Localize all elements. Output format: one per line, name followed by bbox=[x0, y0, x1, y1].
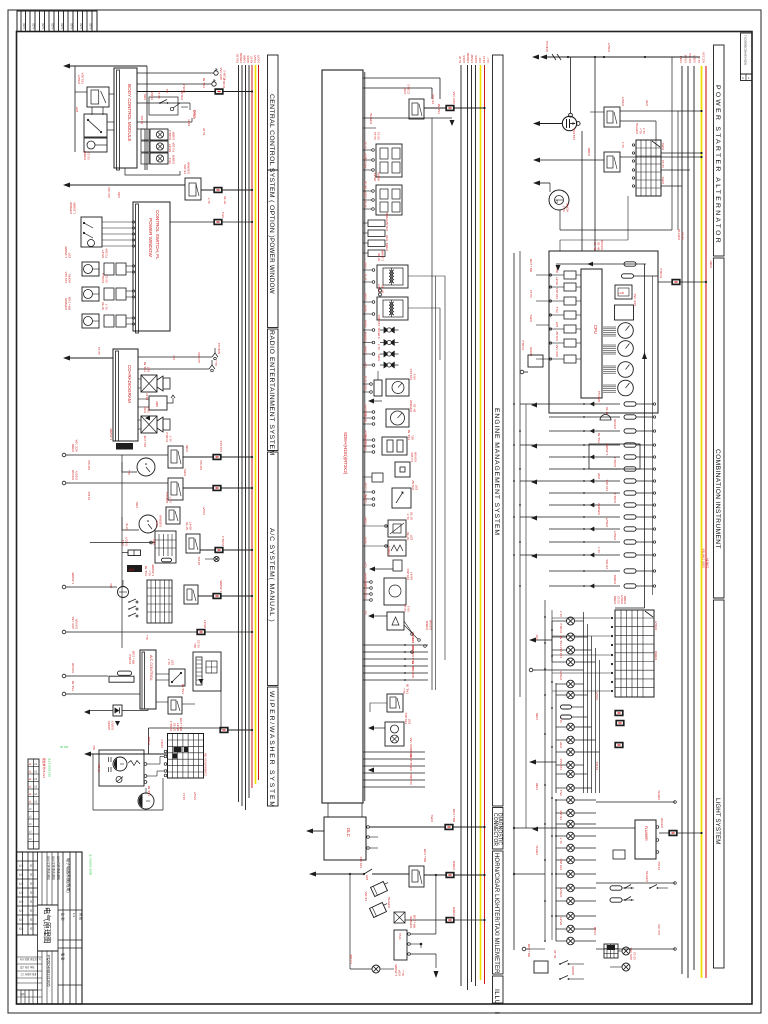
svg-text:0.85L: 0.85L bbox=[135, 501, 139, 508]
svg-text:HORN: HORN bbox=[365, 573, 368, 581]
turn signal resistors bbox=[610, 886, 622, 890]
svg-text:F23 10A: F23 10A bbox=[559, 647, 563, 658]
svg-text:X1-7: X1-7 bbox=[104, 303, 108, 310]
radio head unit U3 bbox=[116, 351, 119, 441]
bcm bottom frame wire bbox=[125, 168, 180, 175]
ems right trunk wire bbox=[431, 118, 433, 690]
svg-text:0.5G/Y: 0.5G/Y bbox=[110, 721, 114, 730]
engine control module U5 bbox=[322, 70, 363, 803]
wiper feed arrow bbox=[84, 752, 91, 757]
ac feed 1 to bus bbox=[183, 456, 252, 458]
blower relay K5 bbox=[166, 507, 180, 524]
section bar segment bbox=[493, 851, 504, 974]
condenser fan motor M8 bbox=[137, 458, 155, 476]
svg-text:1.25W/B: 1.25W/B bbox=[71, 572, 75, 584]
svg-text:JL7160A1-2005: JL7160A1-2005 bbox=[89, 854, 93, 876]
svg-text:0.5B/Y: 0.5B/Y bbox=[709, 260, 713, 268]
svg-text:共 张: 共 张 bbox=[79, 913, 84, 920]
svg-text:GND E2: GND E2 bbox=[217, 342, 221, 354]
ac controller U4 bbox=[142, 652, 145, 709]
svg-text:X1-7: X1-7 bbox=[172, 354, 176, 360]
svg-text:0.5B/R: 0.5B/R bbox=[613, 574, 617, 584]
oxygen sensor B7 bbox=[388, 540, 406, 556]
cam sensor arrow bbox=[368, 399, 374, 404]
svg-text:F8 15A: F8 15A bbox=[559, 810, 563, 820]
ac feed 4 to bus bbox=[198, 595, 252, 597]
svg-text:B+ 30: B+ 30 bbox=[365, 200, 368, 207]
headlamp lamps bbox=[567, 617, 575, 625]
svg-text:F15 20A: F15 20A bbox=[80, 73, 84, 84]
wire with switch S2 bbox=[137, 102, 190, 104]
svg-text:X2-12: X2-12 bbox=[661, 160, 665, 168]
svg-text:TAXI: TAXI bbox=[398, 933, 402, 940]
svg-text:TAIL 58: TAIL 58 bbox=[202, 77, 206, 88]
section bar segment bbox=[493, 976, 504, 1003]
instrument cpu U7 bbox=[581, 269, 602, 398]
cigar lighter feed to bus bbox=[405, 919, 485, 921]
svg-text:RR+ 2.0B: RR+ 2.0B bbox=[365, 157, 368, 168]
diagnostic connector X1 bbox=[324, 817, 366, 860]
svg-text:ACC 15A: ACC 15A bbox=[409, 737, 413, 750]
window relay K2 bbox=[185, 178, 201, 200]
svg-text:0.5BR: 0.5BR bbox=[623, 595, 627, 604]
svg-text:ACC 15A: ACC 15A bbox=[555, 344, 559, 357]
antenna amplifier A1 bbox=[138, 398, 149, 400]
instrument input boxes bbox=[564, 271, 576, 279]
svg-text:C106-2: C106-2 bbox=[160, 739, 164, 748]
svg-text:TAIL 58: TAIL 58 bbox=[365, 413, 368, 422]
light switch feeds bbox=[552, 617, 611, 619]
svg-text:0.5BR: 0.5BR bbox=[185, 445, 189, 452]
svg-text:TAIL 58: TAIL 58 bbox=[181, 683, 185, 694]
svg-text:F15 20A: F15 20A bbox=[365, 583, 368, 593]
svg-text:RR+ 2.0B: RR+ 2.0B bbox=[131, 651, 135, 664]
svg-text:0.5G/Y: 0.5G/Y bbox=[559, 888, 563, 897]
svg-text:A1B2: A1B2 bbox=[51, 22, 54, 29]
lamp L18 bbox=[567, 856, 575, 864]
body control module U1 bbox=[117, 70, 120, 170]
window feed connector bbox=[201, 189, 252, 191]
svg-text:X1-7: X1-7 bbox=[559, 610, 563, 617]
section bar segment bbox=[268, 170, 279, 328]
svg-text:0.85L: 0.85L bbox=[117, 191, 121, 198]
temp gauge bbox=[618, 380, 634, 396]
svg-text:1:1: 1:1 bbox=[72, 913, 76, 918]
svg-text:F3 30A: F3 30A bbox=[595, 761, 599, 770]
svg-text:E07: E07 bbox=[75, 106, 79, 112]
svg-text:HORN: HORN bbox=[365, 320, 368, 328]
svg-text:G: G bbox=[556, 200, 559, 204]
junction cluster bbox=[411, 633, 414, 636]
svg-text:LIGHT SYSTEM: LIGHT SYSTEM bbox=[714, 798, 721, 844]
svg-text:0.5G/Y: 0.5G/Y bbox=[253, 55, 257, 63]
svg-text:PQ5D4N8321005: PQ5D4N8321005 bbox=[47, 955, 52, 987]
svg-text:X2-12: X2-12 bbox=[482, 56, 486, 63]
warning row bell bbox=[600, 415, 611, 420]
ac thermo switch dark box bbox=[127, 565, 142, 572]
maf sensor B5 bbox=[392, 488, 411, 508]
svg-text:0.5L/W: 0.5L/W bbox=[593, 926, 597, 935]
svg-text:0.5L/W: 0.5L/W bbox=[385, 221, 389, 231]
svg-text:电气原理图: 电气原理图 bbox=[43, 907, 52, 943]
svg-text:HORN: HORN bbox=[462, 55, 466, 63]
svg-text:C203-4: C203-4 bbox=[613, 493, 617, 503]
svg-text:COMBINATION SW: COMBINATION SW bbox=[204, 752, 208, 776]
svg-text:X1-7: X1-7 bbox=[207, 197, 211, 204]
svg-text:A: A bbox=[742, 76, 744, 80]
fuel gauge bbox=[618, 362, 634, 378]
wiper combination switch S8 bbox=[168, 734, 204, 779]
svg-text:0.85R/W: 0.85R/W bbox=[411, 645, 415, 657]
svg-text:F8 15A: F8 15A bbox=[140, 115, 144, 124]
svg-text:ENGINE MANAGEMENT SYSTEM: ENGINE MANAGEMENT SYSTEM bbox=[493, 408, 500, 536]
svg-text:比 例: 比 例 bbox=[61, 913, 66, 920]
svg-text:0.5L/W: 0.5L/W bbox=[193, 109, 197, 118]
svg-text:E07: E07 bbox=[170, 659, 174, 665]
lock actuator M1 bbox=[84, 138, 107, 152]
svg-text:RR+ 2.0B: RR+ 2.0B bbox=[67, 297, 71, 310]
svg-text:0.5V/W: 0.5V/W bbox=[71, 663, 75, 673]
svg-text:C106-2: C106-2 bbox=[559, 623, 563, 633]
svg-text:HORN/CIGAR LIGHTER/TAXI MILEME: HORN/CIGAR LIGHTER/TAXI MILEMETER bbox=[493, 853, 499, 974]
svg-text:0.85Y/G: 0.85Y/G bbox=[387, 896, 391, 908]
svg-text:第 张: 第 张 bbox=[61, 953, 66, 961]
svg-text:B+ 30: B+ 30 bbox=[412, 404, 416, 412]
relay row fuse 2 bbox=[616, 721, 624, 726]
horn feed wire bbox=[309, 872, 316, 877]
battery feed wire bbox=[532, 55, 539, 60]
svg-text:ACC 15A: ACC 15A bbox=[633, 293, 637, 306]
trunk junction dots bbox=[513, 403, 515, 405]
section bar segment bbox=[493, 55, 504, 806]
svg-text:CPU: CPU bbox=[593, 325, 598, 334]
fuel injector J4 bbox=[384, 362, 389, 369]
svg-text:RR+ 2.0B: RR+ 2.0B bbox=[179, 718, 183, 731]
wire BCM to bus with connector bbox=[137, 91, 252, 93]
svg-text:ACC 15A: ACC 15A bbox=[702, 52, 706, 63]
main relay K9 bbox=[409, 99, 424, 119]
svg-text:X1-7: X1-7 bbox=[597, 546, 601, 553]
svg-text:031: 031 bbox=[64, 745, 69, 749]
license lamp connector grid bbox=[604, 944, 618, 958]
svg-text:X5-3: X5-3 bbox=[559, 789, 563, 796]
svg-text:A1B2: A1B2 bbox=[61, 22, 64, 29]
svg-text:0.5V/W: 0.5V/W bbox=[413, 452, 417, 462]
svg-text:F15 20A: F15 20A bbox=[555, 288, 559, 299]
ac ground row 5 bbox=[62, 674, 66, 678]
lamp L17 bbox=[567, 844, 575, 852]
svg-text:SDM+(H191)(RT2K2): SDM+(H191)(RT2K2) bbox=[343, 432, 348, 475]
taxi feed vertical bbox=[435, 875, 437, 934]
frame patch below bar2 bbox=[487, 1005, 509, 1012]
switch group frame bbox=[149, 97, 178, 115]
light ground 1 bbox=[529, 668, 533, 672]
svg-text:0.85Y/G: 0.85Y/G bbox=[377, 327, 381, 339]
column1 power bus wires bbox=[238, 65, 240, 802]
svg-text:K5-87: K5-87 bbox=[203, 620, 207, 628]
left trunk verticals column3 bbox=[513, 253, 515, 950]
svg-text:ILL+: ILL+ bbox=[145, 634, 149, 640]
ignition switch feed wires bbox=[661, 152, 702, 154]
svg-text:E07: E07 bbox=[407, 718, 411, 724]
section bar segment bbox=[268, 452, 279, 686]
lamp L21 bbox=[567, 897, 575, 905]
svg-text:设计文件更改通知: 设计文件更改通知 bbox=[56, 856, 61, 880]
ems bottom pin rows bbox=[363, 751, 425, 753]
revision strip bbox=[28, 759, 39, 849]
svg-text:F15 20A: F15 20A bbox=[359, 857, 363, 868]
top-left header strip bbox=[17, 11, 97, 32]
radio antenna wire 1 bbox=[138, 356, 212, 358]
svg-text:F23 10A: F23 10A bbox=[219, 441, 223, 452]
section bar segment bbox=[714, 45, 725, 256]
keyhole switch S3 bbox=[170, 107, 173, 110]
svg-text:FLASHER: FLASHER bbox=[644, 826, 648, 841]
svg-text:0.85R STARTER: 0.85R STARTER bbox=[702, 548, 706, 568]
svg-text:0.5G/Y: 0.5G/Y bbox=[202, 507, 206, 515]
svg-text:CD+RADIOGRAM: CD+RADIOGRAM bbox=[127, 365, 132, 403]
svg-text:0.5L/W: 0.5L/W bbox=[684, 54, 688, 63]
svg-text:HORN: HORN bbox=[571, 966, 575, 975]
lamp L23 bbox=[567, 925, 575, 933]
svg-text:0.85Y/G: 0.85Y/G bbox=[369, 112, 373, 124]
tail lamp group bracket bbox=[555, 800, 557, 941]
svg-text:AMP: AMP bbox=[155, 401, 159, 407]
svg-text:0.85L: 0.85L bbox=[661, 142, 665, 150]
flasher feed box bbox=[613, 850, 625, 859]
ignition switch S10 bbox=[636, 140, 661, 196]
svg-text:F3 30A: F3 30A bbox=[87, 491, 91, 500]
ignition coil C2 bbox=[377, 297, 408, 320]
svg-text:A/C CONTROL: A/C CONTROL bbox=[149, 655, 153, 681]
svg-text:F23 10A: F23 10A bbox=[688, 53, 692, 63]
svg-text:COMBINATION INSTRUMENT: COMBINATION INSTRUMENT bbox=[714, 449, 721, 549]
starter relay K11 bbox=[604, 107, 620, 127]
svg-text:X2-12: X2-12 bbox=[376, 132, 380, 140]
sensor connector rows bbox=[368, 220, 385, 227]
svg-text:F3 30A: F3 30A bbox=[171, 142, 175, 152]
dlc feed arrow bbox=[306, 829, 313, 834]
window bus tap wire bbox=[170, 221, 252, 223]
main relay to bus wire bbox=[424, 107, 485, 109]
resistor pack R1 bbox=[128, 550, 141, 556]
svg-text:X2-12: X2-12 bbox=[182, 793, 186, 800]
map sensor B4 bbox=[395, 462, 410, 477]
lamp group 2 lamps bbox=[567, 680, 575, 688]
svg-text:C106-2: C106-2 bbox=[659, 268, 663, 278]
battery junction drop bbox=[570, 57, 572, 114]
svg-text:X5-3: X5-3 bbox=[406, 605, 410, 612]
ac switch S7 bbox=[169, 669, 185, 686]
svg-text:E07: E07 bbox=[414, 484, 418, 490]
washer motor M11 bbox=[138, 793, 154, 809]
svg-text:K5-87: K5-87 bbox=[250, 56, 254, 63]
cigar lighter lamp bbox=[372, 965, 380, 973]
svg-text:0.5P: 0.5P bbox=[478, 57, 482, 63]
wiper motor M10 bbox=[113, 757, 127, 771]
svg-text:X2-12: X2-12 bbox=[365, 375, 368, 382]
lamp group pills bbox=[561, 705, 572, 709]
relay row fuse 3 bbox=[615, 743, 623, 748]
door lock bus bar bbox=[144, 129, 146, 170]
svg-text:F15 20A: F15 20A bbox=[605, 480, 609, 491]
speedometer gauge bbox=[618, 323, 634, 339]
svg-text:K5-87: K5-87 bbox=[145, 393, 149, 400]
svg-text:0.85L: 0.85L bbox=[365, 592, 368, 599]
svg-text:X2-12: X2-12 bbox=[97, 347, 101, 355]
lamp group 2 bracket bbox=[555, 683, 557, 793]
svg-text:0.85R/W: 0.85R/W bbox=[466, 52, 470, 63]
left rail wire bbox=[121, 455, 123, 648]
svg-text:C106-2: C106-2 bbox=[521, 340, 525, 350]
svg-text:ILL+: ILL+ bbox=[401, 970, 405, 976]
fuel injector J1 bbox=[384, 327, 389, 334]
relay K1 bbox=[87, 87, 109, 107]
svg-text:0.5BR: 0.5BR bbox=[535, 713, 539, 720]
ignition coil module A3 bbox=[376, 144, 402, 177]
combination instrument cluster U6 bbox=[549, 251, 658, 413]
svg-text:0.85Y/G: 0.85Y/G bbox=[645, 870, 649, 882]
svg-text:0.5V/W: 0.5V/W bbox=[74, 619, 78, 629]
svg-text:F8 15A: F8 15A bbox=[605, 559, 609, 569]
svg-text:A1B2: A1B2 bbox=[23, 22, 26, 29]
svg-text:0.5V/W: 0.5V/W bbox=[470, 54, 474, 63]
svg-text:X1-7: X1-7 bbox=[697, 57, 701, 63]
ignition coil C1 bbox=[377, 265, 408, 288]
svg-text:X2-12: X2-12 bbox=[104, 275, 108, 283]
svg-text:TAIL 58: TAIL 58 bbox=[365, 180, 368, 189]
cluster right trunk bbox=[644, 264, 646, 608]
svg-text:A1B2: A1B2 bbox=[42, 22, 45, 29]
svg-text:RR+ 2.0B: RR+ 2.0B bbox=[412, 915, 416, 928]
door lock actuator M4 bbox=[141, 153, 149, 164]
svg-text:F8 15A: F8 15A bbox=[197, 556, 201, 565]
svg-text:0.5G/Y: 0.5G/Y bbox=[605, 518, 609, 527]
svg-text:CENTRAL CONTROL SYSTEM ( OPTIO: CENTRAL CONTROL SYSTEM ( OPTION ) bbox=[268, 94, 275, 238]
svg-text:JLYJ-2005-018: JLYJ-2005-018 bbox=[48, 758, 52, 777]
odometer box bbox=[615, 305, 634, 320]
svg-text:POWER WINDOW: POWER WINDOW bbox=[268, 238, 275, 294]
svg-text:X2-12: X2-12 bbox=[529, 290, 533, 298]
svg-text:C203-4: C203-4 bbox=[613, 457, 617, 467]
svg-text:ILL+: ILL+ bbox=[214, 360, 218, 366]
svg-text:设计文件更改通知: 设计文件更改通知 bbox=[46, 856, 51, 880]
lamp L22 bbox=[567, 912, 575, 920]
svg-text:C203-4: C203-4 bbox=[365, 495, 368, 504]
svg-text:X2-12: X2-12 bbox=[409, 777, 413, 785]
warning indicator rows bbox=[520, 403, 620, 405]
svg-text:HORN: HORN bbox=[565, 203, 569, 212]
license lamp 1 bbox=[622, 947, 630, 955]
warning group box bbox=[589, 444, 640, 469]
washer loop wires bbox=[92, 754, 94, 810]
ems top feed wires bbox=[363, 77, 440, 79]
svg-text:0.5G/Y: 0.5G/Y bbox=[257, 55, 261, 63]
svg-text:POWER STARTER ALTERNATOR: POWER STARTER ALTERNATOR bbox=[714, 85, 721, 245]
svg-text:0.5L/W: 0.5L/W bbox=[365, 482, 368, 491]
svg-text:X2-12: X2-12 bbox=[680, 232, 684, 240]
lcd display bbox=[615, 285, 632, 299]
svg-text:0.5B/R: 0.5B/R bbox=[452, 860, 456, 870]
hazard junctions bbox=[674, 801, 677, 804]
light long feed wires bbox=[514, 827, 635, 829]
svg-text:GND E2: GND E2 bbox=[597, 390, 601, 402]
svg-text:F8 15A: F8 15A bbox=[431, 94, 435, 104]
thermostat B1 bbox=[118, 587, 129, 598]
svg-text:C203-4: C203-4 bbox=[387, 546, 391, 556]
ac feed 1 ground bbox=[62, 453, 66, 457]
svg-text:TAIL 58: TAIL 58 bbox=[147, 785, 151, 796]
ignition coil module A4 bbox=[376, 185, 402, 215]
washer pump assembly bbox=[99, 750, 144, 786]
svg-text:X1-7: X1-7 bbox=[621, 141, 625, 148]
ignition module A6 bbox=[387, 694, 403, 712]
top-right document number box bbox=[741, 33, 753, 74]
title block table bbox=[17, 852, 83, 1004]
svg-text:0.5G/Y: 0.5G/Y bbox=[607, 43, 611, 52]
svg-text:LCD: LCD bbox=[618, 291, 625, 295]
svg-text:X5-3: X5-3 bbox=[412, 373, 416, 380]
svg-text:ST 50: ST 50 bbox=[409, 512, 413, 520]
svg-text:0.5B/R: 0.5B/R bbox=[452, 906, 456, 916]
fuel injector J2 bbox=[384, 339, 389, 346]
svg-text:ST 50: ST 50 bbox=[223, 196, 227, 204]
lamp L24 bbox=[567, 937, 575, 945]
svg-text:0.5P: 0.5P bbox=[535, 634, 539, 640]
turn switch 2 bbox=[622, 899, 634, 901]
wire BCM pin row bbox=[137, 121, 192, 123]
headlamp group bracket bbox=[551, 621, 553, 662]
thermo contacts bbox=[128, 601, 130, 603]
svg-text:K5-87: K5-87 bbox=[365, 403, 368, 410]
starter relay wires bbox=[620, 110, 702, 112]
svg-text:A1B2: A1B2 bbox=[89, 22, 92, 29]
taximeter box A7 bbox=[394, 930, 407, 960]
heater relay K7 bbox=[184, 585, 198, 604]
bar divider tie bbox=[714, 597, 725, 599]
svg-text:B+ 30: B+ 30 bbox=[458, 56, 462, 63]
svg-text:ACC 15A: ACC 15A bbox=[197, 352, 201, 363]
svg-text:0.85R/W: 0.85R/W bbox=[239, 52, 243, 63]
svg-text:CONNECTOR: CONNECTOR bbox=[492, 813, 498, 846]
svg-text:0.5G/Y: 0.5G/Y bbox=[621, 97, 625, 106]
svg-text:0.5B/R: 0.5B/R bbox=[365, 517, 368, 525]
svg-text:0.85L: 0.85L bbox=[377, 353, 381, 361]
svg-text:0.5B/R: 0.5B/R bbox=[171, 154, 175, 164]
power window feed wire bbox=[63, 183, 70, 188]
svg-text:RR+ 2.0B: RR+ 2.0B bbox=[527, 944, 531, 957]
hazard long wires bbox=[596, 801, 675, 803]
flasher to bus bbox=[659, 832, 702, 834]
section bar segment bbox=[268, 55, 279, 170]
svg-text:X5-3: X5-3 bbox=[221, 211, 225, 218]
svg-text:F23 10A: F23 10A bbox=[572, 129, 576, 140]
svg-text:RR+ 2.0B: RR+ 2.0B bbox=[423, 849, 427, 862]
speaker SP2 bbox=[138, 419, 141, 421]
svg-text:RADIO ENTERTAINMENT SYSTEM: RADIO ENTERTAINMENT SYSTEM bbox=[268, 330, 275, 456]
fan relay K3 bbox=[168, 446, 183, 468]
svg-text:0.5B/R: 0.5B/R bbox=[243, 55, 247, 63]
svg-text:0.85R/W: 0.85R/W bbox=[186, 162, 190, 174]
lamp L16 bbox=[567, 832, 575, 840]
svg-text:X1-7: X1-7 bbox=[377, 343, 381, 350]
cigar lighter relay bbox=[394, 912, 405, 923]
svg-text:GND E2: GND E2 bbox=[365, 441, 368, 451]
mid vertical bundle bbox=[583, 612, 585, 793]
svg-text:K5-87: K5-87 bbox=[555, 277, 559, 285]
svg-text:0.5G/Y: 0.5G/Y bbox=[559, 671, 563, 680]
svg-text:TAIL 58: TAIL 58 bbox=[236, 54, 240, 63]
